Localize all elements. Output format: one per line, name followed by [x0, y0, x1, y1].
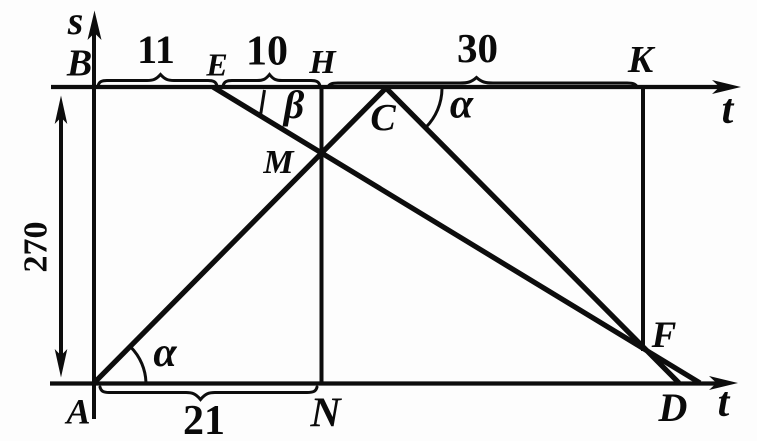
svg-text:α: α [450, 82, 474, 128]
vertical H-N [320, 87, 324, 384]
svg-text:M: M [262, 144, 295, 181]
line A-C (ascending diagonal) [93, 88, 386, 384]
svg-text:t: t [718, 380, 731, 426]
svg-text:10: 10 [246, 29, 288, 75]
svg-text:270: 270 [18, 222, 55, 273]
svg-text:D: D [658, 385, 688, 430]
s axis arrowhead [88, 11, 102, 41]
measurement double arrow 270 [59, 112, 63, 362]
brace 11 (between B and E) [98, 75, 217, 87]
label 270 [18, 222, 55, 273]
svg-text:s: s [67, 0, 84, 43]
angle tick beta at E [261, 90, 265, 116]
svg-text:α: α [153, 330, 177, 376]
top t axis [51, 85, 722, 89]
svg-text:H: H [308, 44, 337, 81]
angle arc alpha at C [426, 89, 442, 128]
svg-text:E: E [205, 47, 227, 83]
angle arc alpha at A [131, 347, 147, 384]
svg-text:F: F [651, 315, 677, 356]
svg-text:β: β [282, 82, 305, 127]
brace 10 (between E and H) [223, 75, 320, 87]
line C-D (descending diagonal from apex C) [386, 88, 679, 383]
line E-F (descending diagonal through M and F) [213, 87, 700, 383]
svg-text:C: C [370, 97, 396, 139]
svg-text:B: B [66, 43, 92, 85]
brace 30 (between H and K) [328, 78, 637, 88]
svg-text:t: t [722, 87, 735, 133]
svg-text:N: N [309, 391, 342, 437]
s axis (vertical) [92, 28, 96, 419]
svg-text:21: 21 [183, 398, 225, 441]
svg-text:11: 11 [137, 27, 175, 72]
svg-text:A: A [64, 392, 90, 432]
vertical K-F [641, 88, 645, 351]
svg-text:K: K [627, 39, 656, 81]
top t axis arrowhead [712, 80, 741, 94]
brace 21 (below A-N) [100, 387, 317, 400]
bottom t axis arrowhead [709, 376, 738, 390]
svg-text:30: 30 [457, 25, 498, 71]
bottom t axis [50, 381, 719, 385]
